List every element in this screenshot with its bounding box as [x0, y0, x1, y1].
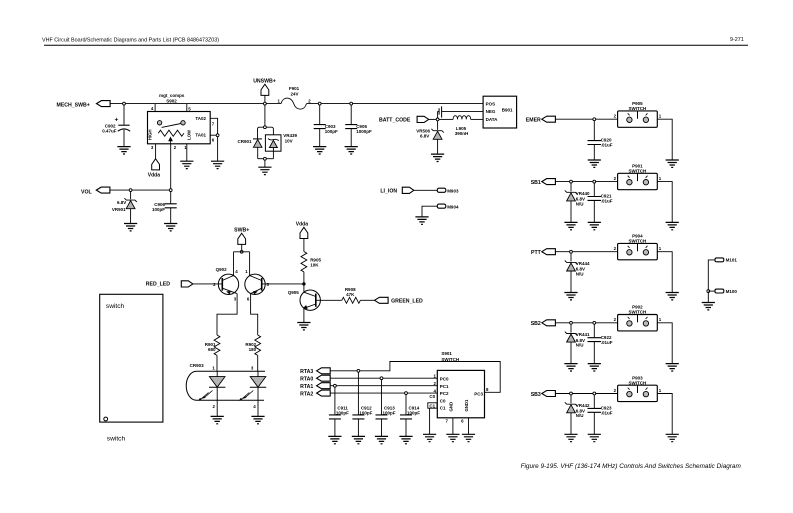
zener VR441 6.8V N/U — [570, 321, 573, 324]
svg-text:VR901: VR901 — [112, 207, 126, 212]
ground for TA01/TA02 — [211, 161, 224, 168]
svg-text:C1: C1 — [429, 403, 435, 408]
wire diode pair bottom rail — [258, 158, 274, 160]
supply Vdda at S902 — [152, 159, 160, 170]
ground for P904 — [666, 293, 679, 300]
emission arrows CR903-B — [242, 391, 254, 400]
capacitor C913 100pF — [380, 377, 383, 380]
svg-text:PC0: PC0 — [440, 376, 449, 381]
svg-text:390nH: 390nH — [455, 131, 469, 136]
ground for C902 — [117, 147, 130, 154]
wire M904 to ground — [422, 206, 437, 217]
svg-text:100pF: 100pF — [336, 410, 349, 415]
ground for P901 — [666, 222, 679, 229]
svg-text:C0: C0 — [429, 394, 435, 399]
svg-text:S901: S901 — [441, 351, 452, 356]
ground for S902 pin 1 — [180, 161, 193, 168]
ground for C911 — [328, 436, 341, 443]
wire RTA1 to PC1 — [330, 385, 437, 387]
fuse F901 24V — [281, 98, 307, 109]
wire SB2 to switch — [555, 322, 617, 324]
wire UNSWB+ down to diode pair — [264, 105, 266, 126]
svg-text:TA02: TA02 — [195, 116, 206, 121]
net GREEN_LED connector — [375, 297, 389, 303]
wire pin 1 of S902 to ground — [186, 144, 188, 161]
svg-text:VR439: VR439 — [283, 133, 297, 138]
node C1 pad — [428, 403, 437, 408]
svg-text:PC3: PC3 — [474, 392, 483, 397]
wire fuse to POS — [307, 103, 484, 105]
capacitor C906 100pF — [169, 189, 172, 192]
svg-text:LOW: LOW — [186, 129, 191, 140]
capacitor C911 100pF — [334, 384, 337, 387]
pad M100 — [715, 289, 724, 293]
wire RTA0 to PC0 — [330, 377, 437, 379]
wire M100 junction to ground — [707, 293, 709, 303]
capacitor C920 .01uF — [593, 118, 596, 121]
svg-text:SWITCH: SWITCH — [629, 239, 647, 244]
ground for C913 — [375, 436, 388, 443]
svg-text:47K: 47K — [346, 292, 355, 297]
svg-text:VOL: VOL — [81, 190, 92, 196]
wire P905 pin1 to ground — [657, 119, 672, 160]
svg-text:680: 680 — [208, 347, 216, 352]
LED CR903-A — [216, 371, 218, 376]
wire diode pair top rail — [258, 127, 274, 139]
battery block B901 — [483, 96, 516, 128]
svg-text:SB2: SB2 — [531, 321, 541, 327]
svg-text:24V: 24V — [290, 91, 298, 96]
wire EMER to switch — [555, 118, 617, 120]
svg-text:CR901: CR901 — [237, 139, 252, 144]
svg-text:EMER: EMER — [526, 118, 541, 124]
wire P901 pin1 to ground — [657, 182, 672, 223]
svg-text:PC2: PC2 — [440, 391, 449, 396]
capacitor C902 0.47uF — [123, 102, 126, 105]
ground for C920 — [588, 160, 601, 167]
capacitor C923 .01uF — [593, 392, 596, 395]
ground for VR901 — [124, 224, 137, 231]
LED CR903-B — [257, 371, 259, 376]
wire P902 pin1 to ground — [657, 323, 672, 364]
wire SWB+ split to emitters — [234, 251, 250, 253]
svg-text:VR441: VR441 — [576, 332, 590, 337]
svg-text:DATA: DATA — [486, 117, 499, 122]
S902 internal contacts — [157, 121, 161, 125]
svg-text:switch: switch — [106, 303, 125, 310]
ground for P905 — [666, 160, 679, 167]
wire PTT to switch — [555, 251, 617, 253]
wire SB3 to switch — [555, 393, 617, 395]
wire pin 3 of S902 to Vdda — [155, 144, 157, 159]
zener VR506 6.8V — [437, 121, 439, 130]
ground for P903 — [666, 434, 679, 441]
svg-text:SB3: SB3 — [531, 392, 541, 398]
svg-text:M903: M903 — [447, 188, 459, 193]
svg-text:10K: 10K — [310, 263, 319, 268]
pad M904 — [437, 204, 446, 208]
wire S901 GND1 pin 6 — [468, 418, 470, 435]
svg-text:100pF: 100pF — [407, 410, 420, 415]
wire Q905 base to R908 — [316, 299, 342, 301]
wire Q902 collectors — [217, 294, 237, 335]
svg-text:M101: M101 — [726, 258, 738, 263]
svg-text:.01uF: .01uF — [601, 199, 613, 204]
svg-text:RTA1: RTA1 — [300, 384, 313, 390]
svg-text:SWITCH: SWITCH — [441, 357, 459, 362]
ground for C923 — [588, 434, 601, 441]
svg-text:Q905: Q905 — [288, 290, 300, 295]
svg-text:1000pF: 1000pF — [356, 129, 372, 134]
svg-text:0.47uF: 0.47uF — [102, 128, 117, 133]
ground for P902 — [666, 364, 679, 371]
S902 potentiometer element — [158, 130, 184, 136]
ground for C906 — [164, 224, 177, 231]
inductor L905 390nH — [439, 118, 453, 120]
svg-text:GND: GND — [448, 402, 453, 412]
wire RTA2 to PC2 — [330, 392, 437, 394]
svg-text:C1: C1 — [440, 405, 446, 410]
ground for Q905 — [297, 323, 310, 330]
svg-text:mgt_comps: mgt_comps — [159, 93, 185, 98]
svg-text:B901: B901 — [502, 108, 513, 113]
svg-text:NEG: NEG — [486, 109, 496, 114]
svg-text:BATT_CODE: BATT_CODE — [379, 117, 411, 123]
svg-text:RTA2: RTA2 — [300, 391, 313, 397]
capacitor C921 .01uF — [593, 180, 596, 183]
wire P903 pin1 to ground — [657, 394, 672, 435]
svg-text:SWITCH: SWITCH — [629, 168, 647, 173]
ground for C912 — [352, 436, 365, 443]
ground for CR903-B — [251, 416, 264, 423]
ground for C914 — [399, 436, 412, 443]
wire pin 2 of S902 to VOL — [170, 144, 172, 190]
capacitor C905 1000pF — [350, 102, 353, 105]
svg-text:SWITCH: SWITCH — [629, 106, 647, 111]
svg-text:M100: M100 — [726, 289, 738, 294]
svg-text:N/U: N/U — [576, 201, 584, 206]
switch assembly outline — [100, 294, 163, 422]
svg-text:6.8V: 6.8V — [117, 200, 126, 205]
ground for S901 pin 6 — [462, 434, 475, 441]
resistor R901 680 — [214, 335, 220, 355]
svg-text:S902: S902 — [166, 99, 177, 104]
svg-text:SB1: SB1 — [531, 180, 541, 186]
zener VR440 6.8V N/U — [570, 180, 573, 183]
svg-text:PTT: PTT — [531, 250, 542, 256]
wire pin 4 of S902 — [154, 104, 156, 112]
svg-text:TA01: TA01 — [195, 133, 206, 138]
ground for VR506 — [431, 154, 444, 161]
svg-text:RTA3: RTA3 — [300, 369, 313, 375]
zener VR439 10V in box — [265, 135, 281, 151]
svg-text:VR440: VR440 — [576, 191, 590, 196]
pad M903 — [437, 188, 446, 192]
svg-text:100pF: 100pF — [359, 410, 372, 415]
wire LI_ION to M903 — [414, 189, 437, 191]
zener VR444 6.8V N/U — [570, 250, 573, 253]
wire S901 GND pin 7 — [452, 418, 454, 435]
svg-text:C0: C0 — [440, 398, 446, 403]
svg-text:.01uF: .01uF — [601, 411, 613, 416]
wire VOL line — [110, 189, 171, 191]
ground for VR440 — [564, 222, 577, 229]
zener VR442 6.8V N/U — [570, 392, 573, 395]
svg-text:SWITCH: SWITCH — [629, 310, 647, 315]
svg-text:LI_ION: LI_ION — [380, 189, 397, 195]
svg-text:Vdda: Vdda — [148, 172, 160, 178]
ground for VR442 — [564, 434, 577, 441]
ground for VR444 — [564, 293, 577, 300]
svg-text:Figure 9-195. VHF (136-174 MH: Figure 9-195. VHF (136-174 MHz) Controls… — [521, 463, 742, 470]
svg-text:100pF: 100pF — [325, 129, 338, 134]
wire P904 pin1 to ground — [657, 252, 672, 293]
wire SB1 to switch — [555, 181, 617, 183]
svg-text:Vdda: Vdda — [296, 222, 308, 228]
svg-text:.01uF: .01uF — [601, 340, 613, 345]
svg-text:M904: M904 — [447, 204, 459, 209]
wire RTA3 to PC3 pin 8 — [330, 362, 500, 393]
capacitor C912 100pF — [357, 369, 360, 372]
wire M101 to M100 — [708, 260, 715, 290]
ground for CR901/VR439 — [258, 167, 271, 174]
capacitor C922 .01uF — [593, 321, 596, 324]
capacitor C914 100pF — [405, 392, 408, 395]
svg-text:RED_LED: RED_LED — [146, 281, 170, 287]
wire C1 to ground — [429, 408, 431, 434]
ground for C903 — [313, 147, 326, 154]
wire Q902 base pin5 to Q905 — [262, 283, 304, 285]
ground for C921 — [588, 222, 601, 229]
wire MECH_SWB+ rail to fuse — [110, 103, 281, 105]
ground for VR441 — [564, 364, 577, 371]
svg-text:switch: switch — [107, 435, 126, 442]
ground for CR903-A — [211, 416, 224, 423]
capacitor on NEG line — [437, 111, 439, 118]
svg-text:HIGH: HIGH — [147, 129, 152, 140]
svg-text:9-271: 9-271 — [730, 37, 744, 43]
resistor R908 47K — [342, 297, 361, 303]
svg-text:100pF: 100pF — [383, 410, 396, 415]
ground for C1 — [423, 434, 436, 441]
svg-text:N/U: N/U — [576, 271, 584, 276]
ground for S901 pin 7 — [446, 434, 459, 441]
svg-text:180: 180 — [249, 347, 257, 352]
svg-text:100pF: 100pF — [152, 207, 165, 212]
svg-text:CR903: CR903 — [190, 363, 205, 368]
svg-text:N/U: N/U — [576, 413, 584, 418]
svg-text:GND1: GND1 — [464, 399, 469, 412]
capacitor C903 100pF — [318, 102, 321, 105]
resistor R902 180 — [255, 335, 261, 355]
wire pin 5 of S902 — [186, 104, 188, 112]
svg-text:VHF Circuit Board/Schematic Di: VHF Circuit Board/Schematic Diagrams and… — [42, 38, 219, 44]
ground for C905 — [345, 147, 358, 154]
ground for M100 — [702, 303, 715, 310]
svg-text:GREEN_LED: GREEN_LED — [391, 299, 423, 305]
header rule — [44, 44, 748, 46]
svg-text:PC1: PC1 — [440, 384, 449, 389]
svg-text:N/U: N/U — [576, 343, 584, 348]
ground for C922 — [588, 364, 601, 371]
ground for M904 — [415, 217, 428, 224]
svg-text:SWITCH: SWITCH — [629, 380, 647, 385]
wire Q905 emitter to ground — [303, 308, 305, 322]
svg-text:UNSWB+: UNSWB+ — [253, 79, 276, 85]
svg-text:MECH_SWB+: MECH_SWB+ — [57, 102, 90, 108]
zener VR901 6.8V — [129, 189, 132, 192]
svg-text:.01uF: .01uF — [601, 143, 613, 148]
svg-text:VR444: VR444 — [576, 261, 590, 266]
svg-text:6.8V: 6.8V — [420, 133, 429, 138]
svg-text:POS: POS — [486, 101, 496, 106]
wire RED_LED to Q902 base — [193, 283, 222, 285]
svg-text:10V: 10V — [285, 138, 293, 143]
diode CR901 — [253, 138, 262, 140]
emission arrows CR903-A — [201, 391, 213, 400]
svg-text:RTA0: RTA0 — [300, 376, 313, 382]
resistor R905 10K — [301, 252, 307, 272]
svg-text:VR442: VR442 — [576, 403, 590, 408]
svg-text:Q902: Q902 — [216, 267, 228, 272]
pad M101 — [715, 258, 724, 262]
